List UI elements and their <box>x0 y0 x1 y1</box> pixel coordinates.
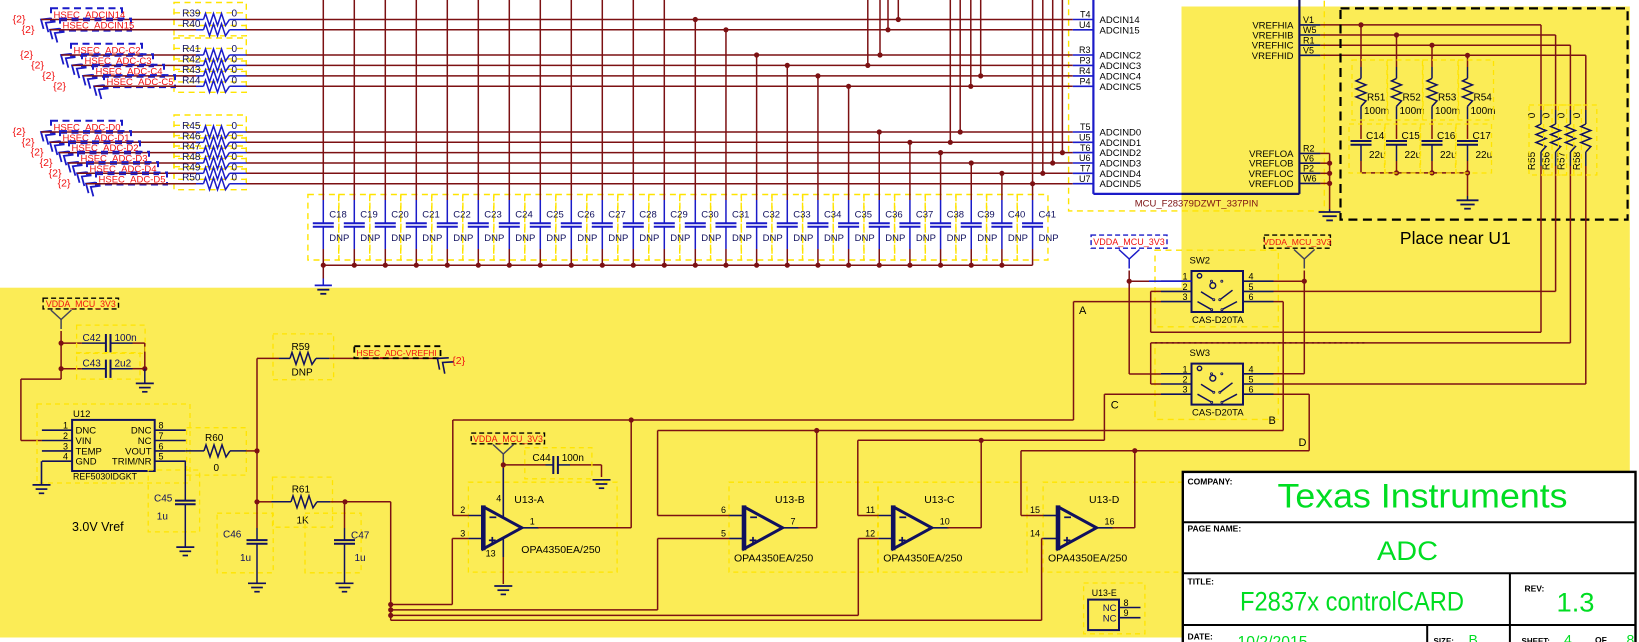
capacitor C36 DNP <box>869 129 906 267</box>
wire U13-A pin13 <box>502 539 504 585</box>
svg-text:DNP: DNP <box>916 233 936 244</box>
selection box C14 <box>1349 124 1385 173</box>
svg-text:2u2: 2u2 <box>115 359 132 370</box>
selection box C28 <box>618 195 649 261</box>
svg-text:C15: C15 <box>1402 131 1421 142</box>
svg-text:5: 5 <box>1249 282 1254 292</box>
svg-text:3: 3 <box>1182 292 1187 302</box>
selection box C23 <box>463 195 494 261</box>
capacitor C31 DNP <box>715 27 752 268</box>
svg-text:C34: C34 <box>824 210 841 221</box>
MCU pin R3 ADCINC2 <box>1073 45 1141 61</box>
svg-text:DNP: DNP <box>1039 233 1059 244</box>
selection box C46 <box>217 513 273 573</box>
wire vertical drop x=880 <box>877 0 882 58</box>
svg-text:DNP: DNP <box>608 233 628 244</box>
svg-text:VDDA_MCU_3V3: VDDA_MCU_3V3 <box>473 434 543 444</box>
wire U13-C pin11 feedback <box>858 440 879 515</box>
svg-text:{2}: {2} <box>58 178 71 190</box>
selection box C41 <box>1017 195 1048 261</box>
sheet ref {2} for HSEC_ADC-D5 <box>58 178 71 190</box>
sheet ref {2} for HSEC_ADC-D0 <box>13 126 26 138</box>
svg-text:U4: U4 <box>1079 20 1091 30</box>
svg-text:PAGE NAME:: PAGE NAME: <box>1188 524 1242 534</box>
wire U13-A pin4 power <box>501 462 506 517</box>
wire net ADCIN15 <box>247 29 1073 31</box>
svg-text:SW2: SW2 <box>1190 256 1211 267</box>
svg-text:OPA4350EA/250: OPA4350EA/250 <box>521 544 600 556</box>
wire HSEC_ADC-C2 to R41 <box>61 54 196 56</box>
svg-text:C20: C20 <box>391 210 408 221</box>
svg-text:ADCIND2: ADCIND2 <box>1100 148 1142 159</box>
wire node B <box>658 428 1284 433</box>
svg-text:NC: NC <box>1103 613 1117 624</box>
wire net ADCIND2 <box>247 152 1073 154</box>
U12 pin 8 DNC <box>131 421 186 437</box>
selection box C32 <box>741 195 772 261</box>
selection box R40 <box>174 13 246 36</box>
ground U13-A <box>494 586 512 594</box>
svg-text:C46: C46 <box>223 530 242 541</box>
svg-text:13: 13 <box>486 549 496 559</box>
svg-text:CAS-D20TA: CAS-D20TA <box>1192 408 1244 419</box>
wire net ADCINC3 <box>247 64 1073 66</box>
wire node D to SW3 pin6 <box>1274 394 1310 451</box>
text 3.0V Vref <box>72 520 124 534</box>
wire bus Vref line1 <box>388 602 452 607</box>
capacitor C30 DNP <box>685 17 722 268</box>
wire net ADCINC5 <box>247 85 1073 87</box>
port label HSEC_ADC-C4 <box>79 65 164 89</box>
selection box C45 <box>148 470 199 532</box>
U12 pin 2 VIN <box>42 431 92 447</box>
IC U13-E spare box <box>1088 588 1119 630</box>
svg-text:V5: V5 <box>1303 46 1314 56</box>
power port VDDA_MCU_3V3 (U13-A) <box>471 433 544 463</box>
svg-text:4: 4 <box>63 452 68 462</box>
title block frame <box>1183 472 1636 642</box>
capacitor C34 DNP <box>807 73 844 268</box>
op-amp U13-B <box>721 494 813 565</box>
svg-text:C35: C35 <box>855 210 872 221</box>
svg-text:8: 8 <box>1124 598 1129 608</box>
svg-text:C39: C39 <box>977 210 994 221</box>
svg-text:Place near U1: Place near U1 <box>1400 228 1511 248</box>
svg-text:R52: R52 <box>1403 93 1422 104</box>
U12 pin 3 TEMP <box>42 441 102 457</box>
capacitor C15 22u <box>1386 121 1421 173</box>
svg-text:15: 15 <box>1030 505 1040 515</box>
resistor R52 100m <box>1392 35 1425 121</box>
ground C17 <box>1457 173 1479 209</box>
svg-text:R1: R1 <box>1303 35 1315 45</box>
selection box R51 <box>1352 60 1387 120</box>
U12 pin 4 GND <box>42 452 97 468</box>
title block size <box>1434 632 1478 642</box>
svg-text:{2}: {2} <box>22 24 35 36</box>
resistor R42 0 ohm <box>182 54 246 71</box>
sheet ref {2} for HSEC_ADC-C2 <box>20 49 33 61</box>
svg-text:W5: W5 <box>1303 25 1317 35</box>
wire HSEC_ADC-C3 to R42 <box>72 64 196 66</box>
svg-text:1: 1 <box>1182 272 1187 282</box>
wire U13-D pin14 <box>1042 539 1044 621</box>
svg-text:{2}: {2} <box>53 80 66 92</box>
svg-text:C22: C22 <box>453 210 470 221</box>
svg-text:C25: C25 <box>546 210 563 221</box>
svg-text:R40: R40 <box>182 19 201 30</box>
wire U13-A output <box>538 420 631 528</box>
selection box R47 <box>174 136 246 159</box>
sheet ref {2} for HSEC_ADC-C3 <box>31 59 44 71</box>
MCU pin V6 VREFLOB <box>1249 153 1320 169</box>
svg-text:VREFLOD: VREFLOD <box>1249 179 1294 190</box>
resistor R44 0 ohm <box>182 75 246 92</box>
svg-text:4: 4 <box>1249 364 1254 374</box>
ground C43 <box>136 369 154 392</box>
svg-text:U13-C: U13-C <box>924 494 955 506</box>
selection box C21 <box>401 195 432 261</box>
resistor R48 0 ohm <box>182 152 246 169</box>
selection box R61 <box>273 477 333 527</box>
capacitor C22 DNP <box>437 0 474 268</box>
MCU pin U5 ADCIND1 <box>1073 133 1141 149</box>
svg-text:R54: R54 <box>1474 93 1493 104</box>
resistor R59 DNP <box>279 342 329 379</box>
svg-text:REF5030IDGKT: REF5030IDGKT <box>73 472 138 482</box>
selection box R50 <box>174 167 246 190</box>
MCU pin V5 VREFHID <box>1252 46 1321 62</box>
wire U13-A pin2 feedback <box>453 420 469 516</box>
svg-text:U7: U7 <box>1079 174 1091 184</box>
wire U13-C output <box>947 440 981 528</box>
svg-text:NC: NC <box>138 436 152 447</box>
selection box C22 <box>432 195 463 261</box>
svg-text:DNP: DNP <box>670 233 690 244</box>
svg-text:OPA4350EA/250: OPA4350EA/250 <box>734 553 813 565</box>
svg-text:DNP: DNP <box>977 233 997 244</box>
svg-text:5: 5 <box>159 452 164 462</box>
svg-text:DNP: DNP <box>515 233 535 244</box>
resistor R39 0 ohm <box>182 9 246 26</box>
svg-text:R4: R4 <box>1079 66 1091 76</box>
resistor R50 0 ohm <box>182 173 246 190</box>
svg-text:ADC: ADC <box>1377 536 1438 566</box>
wire HSEC_ADC-D5 to R50 <box>86 183 196 185</box>
port label HSEC_ADC-C5 <box>90 75 175 99</box>
wire VDDA to SW2 pin4 and SW3 pin4 <box>1274 271 1307 374</box>
wire vertical drop x=971 <box>968 0 973 89</box>
resistor R56 0 ohm <box>1542 35 1561 170</box>
IC U12 REF5030IDGKT box <box>72 409 155 482</box>
selection box R55 <box>1529 105 1552 175</box>
title block rev <box>1525 584 1595 618</box>
svg-text:R2: R2 <box>1303 144 1315 154</box>
U12 pin 1 DNC <box>42 421 96 437</box>
node C label <box>1111 400 1119 412</box>
svg-text:8: 8 <box>1627 632 1635 642</box>
svg-text:R41: R41 <box>182 44 201 55</box>
svg-text:10/2/2015: 10/2/2015 <box>1238 634 1308 642</box>
svg-text:0: 0 <box>232 19 238 30</box>
dotted box edge above SW3 <box>1155 342 1367 344</box>
power port VDDA_MCU_3V3 (SW2 right) <box>1263 235 1332 268</box>
wire net VREFLO <box>1320 153 1332 209</box>
wire HSEC_ADC-D3 to R48 <box>68 162 196 164</box>
svg-text:C26: C26 <box>577 210 594 221</box>
svg-text:3.0V Vref: 3.0V Vref <box>72 520 124 534</box>
wire vertical drop x=1043 <box>1040 0 1045 176</box>
wire net ADCINC4 <box>247 75 1073 77</box>
svg-text:CAS-D20TA: CAS-D20TA <box>1192 315 1244 326</box>
wire U13-A pin3 <box>452 539 468 605</box>
sheet ref {2} for HSEC_ADC-D1 <box>22 136 35 148</box>
wire R55 to switch <box>1540 166 1542 332</box>
capacitor C29 DNP <box>654 0 691 268</box>
svg-text:22u: 22u <box>1405 150 1422 161</box>
ground VREFLO <box>1319 209 1341 220</box>
ground C46 <box>248 583 266 591</box>
switch SW2 CAS-D20TA <box>1161 256 1274 327</box>
MCU pin R2 VREFLOA <box>1249 144 1320 160</box>
svg-text:R50: R50 <box>182 173 201 184</box>
wire SW3 pin5 to R58 <box>1274 383 1586 385</box>
svg-text:DNP: DNP <box>732 233 752 244</box>
resistor R49 0 ohm <box>182 162 246 179</box>
selection box C34 <box>803 195 834 261</box>
svg-text:3: 3 <box>460 528 465 538</box>
dashed box Place near U1 <box>1341 8 1628 219</box>
wire vertical drop x=898 <box>896 0 901 22</box>
wire vertical drop x=1062 <box>1060 0 1065 155</box>
svg-text:VDDA_MCU_3V3: VDDA_MCU_3V3 <box>1263 237 1332 247</box>
svg-text:TITLE:: TITLE: <box>1188 577 1215 587</box>
svg-text:T4: T4 <box>1080 10 1091 20</box>
ground C44 <box>593 480 611 488</box>
svg-text:C14: C14 <box>1366 131 1385 142</box>
selection box U13-C <box>878 482 1027 572</box>
svg-text:DNP: DNP <box>329 233 349 244</box>
capacitor C26 DNP <box>561 0 598 268</box>
MCU pin V1 VREFHIA <box>1252 15 1320 31</box>
svg-text:C32: C32 <box>763 210 780 221</box>
node A label <box>1079 305 1087 317</box>
svg-text:COMPANY:: COMPANY: <box>1188 477 1233 487</box>
wire HSEC_ADCIN15 to R40 <box>50 29 196 31</box>
svg-text:{2}: {2} <box>452 355 465 367</box>
capacitor C14 22u <box>1351 121 1386 173</box>
wire HSEC_ADC-D4 to R49 <box>77 172 196 174</box>
MCU pin U4 ADCIN15 <box>1073 20 1140 36</box>
svg-text:4: 4 <box>1249 272 1254 282</box>
selection box R45 <box>174 115 246 138</box>
svg-text:DNP: DNP <box>360 233 380 244</box>
svg-text:MCU_F28379DZWT_337PIN: MCU_F28379DZWT_337PIN <box>1135 199 1259 210</box>
U12 pin 7 NC <box>138 431 186 447</box>
resistor R60 0 ohm <box>186 433 247 474</box>
svg-text:OF: OF <box>1595 635 1607 642</box>
svg-text:3: 3 <box>63 441 68 451</box>
capacitor C32 DNP <box>746 52 783 267</box>
title block page name <box>1188 524 1439 567</box>
svg-text:R44: R44 <box>182 75 201 86</box>
ground U12 GND <box>33 461 51 493</box>
svg-text:7: 7 <box>159 431 164 441</box>
selection box R57 <box>1558 105 1581 175</box>
svg-text:22u: 22u <box>1476 150 1493 161</box>
wire U13-D output <box>1112 451 1135 528</box>
selection box C27 <box>587 195 618 261</box>
selection box U13-E <box>1084 583 1145 634</box>
svg-text:C33: C33 <box>793 210 810 221</box>
svg-text:VDDA_MCU_3V3: VDDA_MCU_3V3 <box>1093 237 1165 247</box>
selection box U13-D <box>1043 482 1192 572</box>
svg-text:DNP: DNP <box>639 233 659 244</box>
wire net ADCIND5 <box>247 183 1073 185</box>
svg-text:U13-E: U13-E <box>1092 588 1117 598</box>
capacitor C24 DNP <box>499 0 536 268</box>
capacitor C19 DNP <box>344 0 381 268</box>
selection box C17 <box>1456 124 1492 173</box>
wire bus Vref vertical <box>390 502 392 621</box>
svg-text:R51: R51 <box>1367 93 1386 104</box>
svg-text:0: 0 <box>232 65 238 76</box>
svg-text:C30: C30 <box>701 210 718 221</box>
MCU pin P4 ADCINC5 <box>1073 77 1141 93</box>
svg-text:1K: 1K <box>297 516 310 527</box>
wire net VREFHID <box>1320 53 1585 58</box>
capacitor C45 1u <box>154 461 196 547</box>
capacitor C27 DNP <box>592 0 629 268</box>
svg-text:C40: C40 <box>1008 210 1025 221</box>
wire net ADCIND0 <box>247 131 1073 133</box>
svg-text:R60: R60 <box>205 433 224 444</box>
capacitor C17 22u <box>1457 121 1492 173</box>
svg-text:VDDA_MCU_3V3: VDDA_MCU_3V3 <box>46 299 116 309</box>
svg-text:T5: T5 <box>1080 122 1091 132</box>
svg-text:W6: W6 <box>1303 174 1317 184</box>
svg-text:C17: C17 <box>1473 131 1492 142</box>
svg-text:C41: C41 <box>1039 210 1056 221</box>
MCU pin T7 ADCIND4 <box>1073 164 1141 180</box>
capacitor C16 22u <box>1422 121 1457 173</box>
svg-text:100m: 100m <box>1471 106 1496 117</box>
port label HSEC_ADC-D4 <box>73 162 158 186</box>
svg-text:ADCINC5: ADCINC5 <box>1100 82 1142 93</box>
wire U13-C pin12 <box>858 539 878 616</box>
svg-text:C19: C19 <box>360 210 377 221</box>
wire U13-B pin5 <box>658 539 730 610</box>
svg-text:R47: R47 <box>182 142 201 153</box>
node D label <box>1299 437 1307 449</box>
wire VDDA to SW2 pin1 and SW3 pin1 <box>1127 271 1192 375</box>
svg-text:SIZE:: SIZE: <box>1434 637 1454 642</box>
svg-text:C27: C27 <box>608 210 625 221</box>
svg-text:100m: 100m <box>1400 106 1425 117</box>
svg-text:0: 0 <box>232 142 238 153</box>
selection box C33 <box>772 195 803 261</box>
selection box C29 <box>649 195 680 261</box>
svg-text:U5: U5 <box>1079 133 1091 143</box>
svg-text:HSEC_ADC-VREFHI: HSEC_ADC-VREFHI <box>357 348 437 358</box>
wire net VREFHIC <box>1320 43 1570 48</box>
sheet ref {2} for HSEC_ADC-D2 <box>31 147 44 159</box>
wire VDDA to C42 C43 U12 <box>21 331 64 441</box>
op-amp U13-C <box>865 494 962 565</box>
wire HSEC_ADC-D1 to R46 <box>50 141 196 143</box>
wire net ADCINC2 <box>247 54 1073 56</box>
svg-text:R43: R43 <box>182 65 201 76</box>
svg-text:C43: C43 <box>83 359 102 370</box>
svg-text:U6: U6 <box>1079 153 1091 163</box>
svg-text:C28: C28 <box>639 210 656 221</box>
selection box R53 <box>1423 60 1458 120</box>
sheet ref {2} for HSEC_ADC-D3 <box>40 157 53 169</box>
svg-text:DNP: DNP <box>947 233 967 244</box>
wire vertical drop x=981 <box>978 0 983 79</box>
svg-text:22u: 22u <box>1369 150 1386 161</box>
svg-text:DNP: DNP <box>1008 233 1028 244</box>
MCU part label <box>1135 199 1259 210</box>
resistor R61 1K <box>257 485 330 527</box>
capacitor C46 1u <box>223 502 268 584</box>
svg-text:1: 1 <box>1182 364 1187 374</box>
svg-text:1u: 1u <box>355 553 366 564</box>
wire U13-B output <box>798 431 817 528</box>
MCU pin R4 ADCINC4 <box>1073 66 1141 82</box>
port label HSEC_ADC-D3 <box>64 152 149 176</box>
sheet ref {2} for HSEC_ADC-C4 <box>42 70 55 82</box>
selection box R54 <box>1459 60 1494 120</box>
capacitor C47 1u <box>334 502 370 584</box>
capacitor C18 DNP <box>313 0 350 268</box>
selection box C19 <box>339 195 370 261</box>
selection box C31 <box>711 195 742 261</box>
svg-text:C31: C31 <box>732 210 749 221</box>
svg-text:P4: P4 <box>1079 77 1090 87</box>
svg-text:C44: C44 <box>532 453 551 464</box>
selection box C26 <box>556 195 587 261</box>
svg-text:SW3: SW3 <box>1190 348 1211 359</box>
svg-text:1: 1 <box>63 421 68 431</box>
selection box C15 <box>1385 124 1421 173</box>
wire HSEC_ADC-C5 to R44 <box>94 85 196 87</box>
svg-text:DNP: DNP <box>763 233 783 244</box>
svg-text:T6: T6 <box>1080 143 1091 153</box>
selection box C30 <box>680 195 711 261</box>
svg-text:1u: 1u <box>157 512 168 523</box>
svg-text:U13-B: U13-B <box>775 494 805 506</box>
selection box R46 <box>174 125 246 148</box>
svg-text:0: 0 <box>214 463 220 474</box>
selection box C20 <box>370 195 401 261</box>
wire R60 out <box>246 448 259 453</box>
svg-text:4: 4 <box>1564 632 1572 642</box>
op-amp U13-D <box>1030 494 1127 565</box>
port label HSEC_ADC-D0 <box>37 121 122 145</box>
svg-text:C23: C23 <box>484 210 501 221</box>
svg-text:14: 14 <box>1030 528 1040 538</box>
svg-text:DNP: DNP <box>292 368 313 379</box>
selection box SW2 <box>1155 250 1278 327</box>
wire R61 out <box>330 499 390 504</box>
MCU pin U6 ADCIND3 <box>1073 153 1141 169</box>
svg-text:3: 3 <box>1182 385 1187 395</box>
svg-text:GND: GND <box>76 457 97 468</box>
selection box R39 <box>174 3 246 26</box>
MCU pin T6 ADCIND2 <box>1073 143 1141 159</box>
svg-text:C36: C36 <box>885 210 902 221</box>
